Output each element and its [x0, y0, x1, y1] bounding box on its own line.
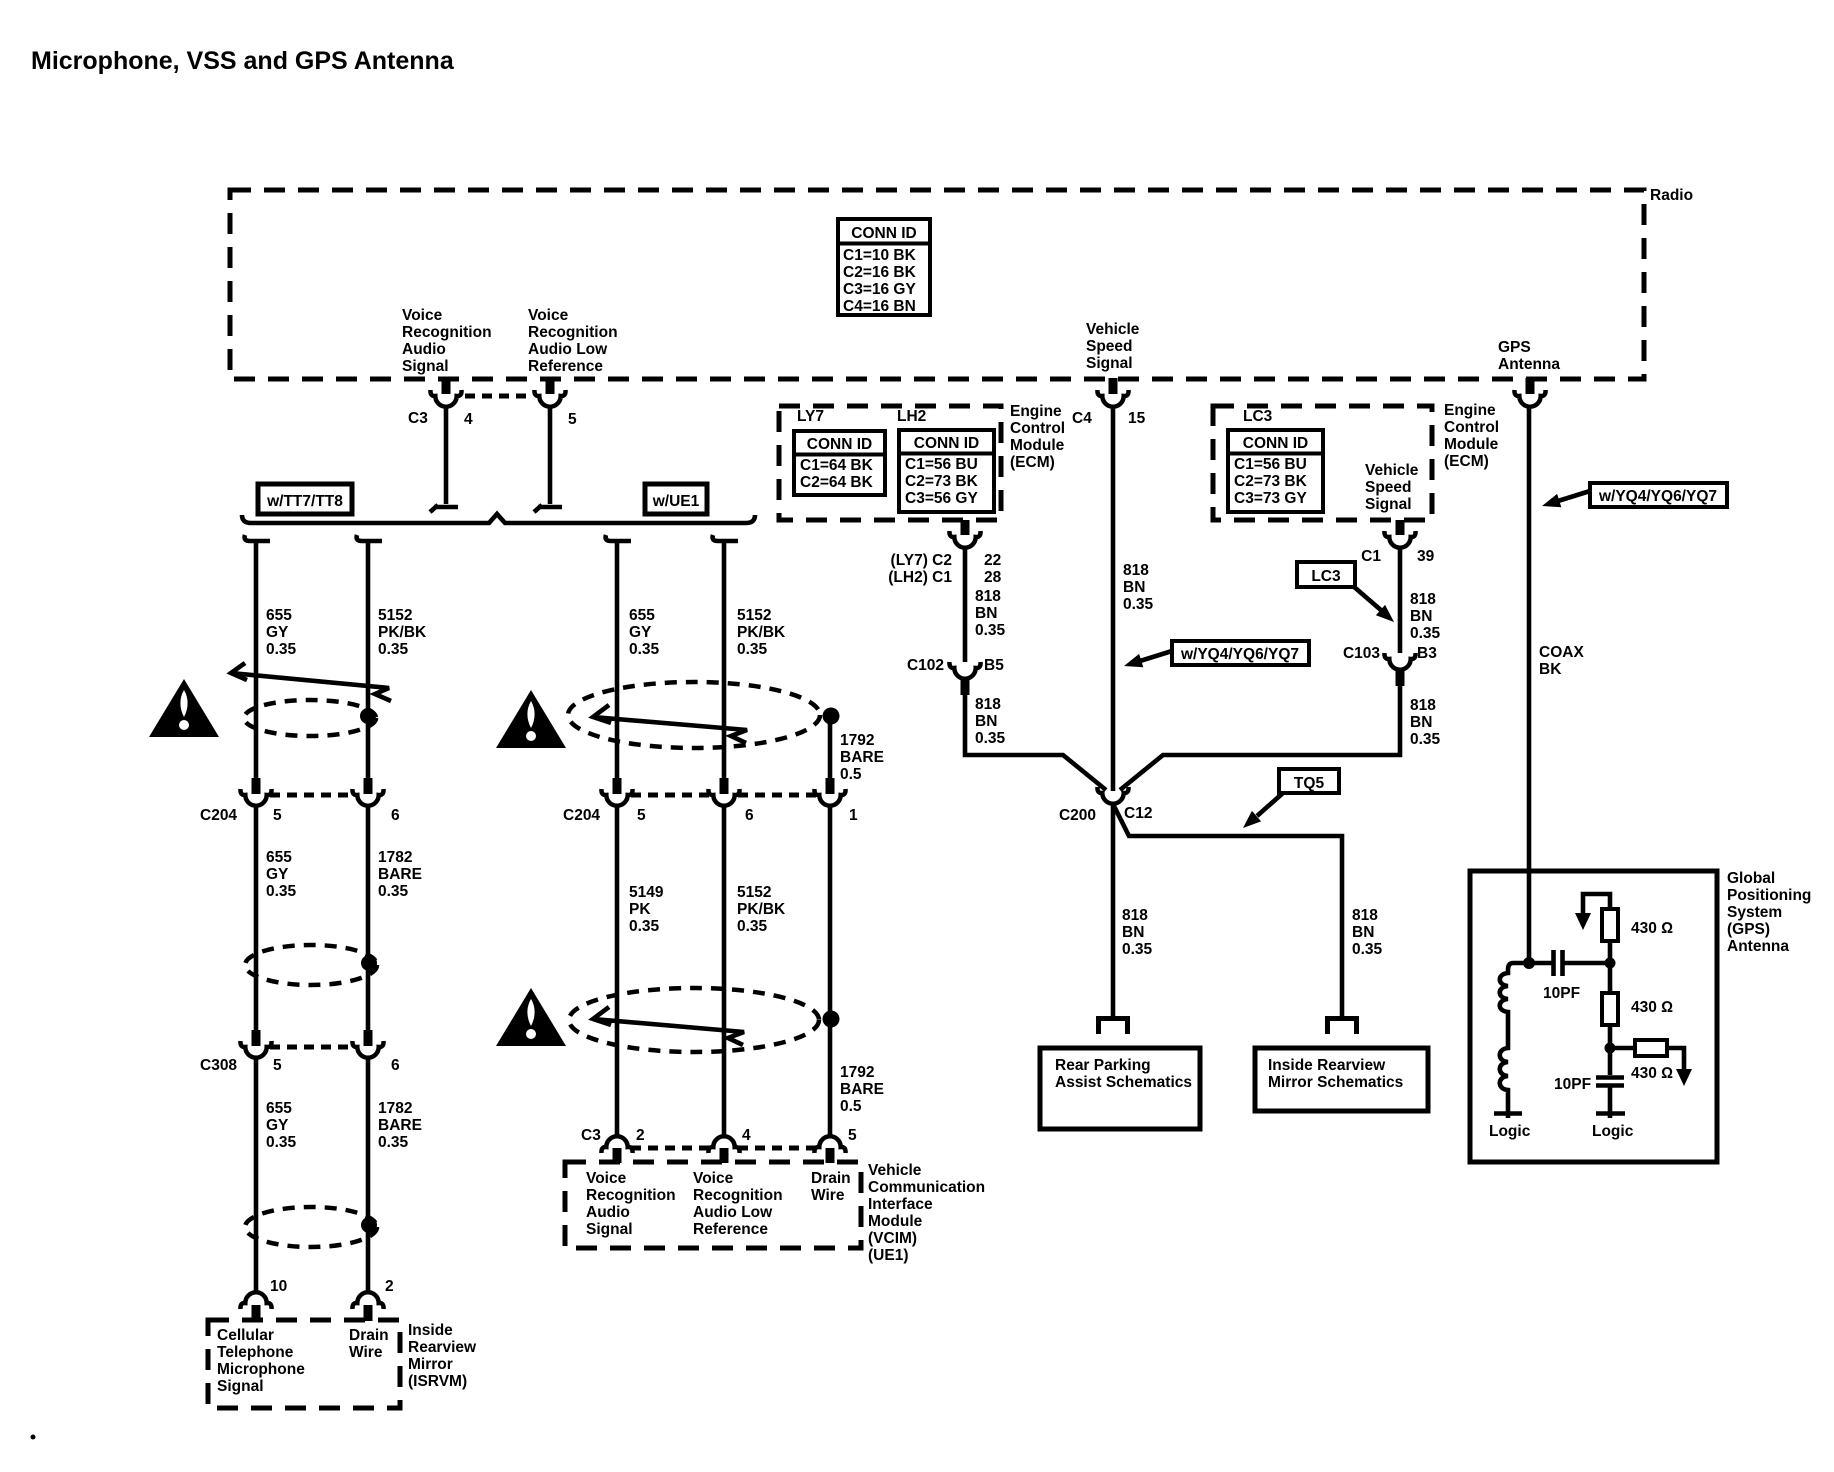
- svg-text:(ISRVM): (ISRVM): [408, 1373, 467, 1390]
- svg-text:Global: Global: [1727, 870, 1775, 887]
- svg-text:39: 39: [1417, 548, 1435, 565]
- svg-text:5: 5: [848, 1127, 857, 1144]
- svg-text:15: 15: [1128, 410, 1146, 427]
- svg-text:C2=64 BK: C2=64 BK: [800, 474, 874, 491]
- svg-text:BK: BK: [1539, 661, 1562, 678]
- svg-text:Module: Module: [1010, 437, 1065, 454]
- svg-text:Microphone: Microphone: [217, 1361, 305, 1378]
- svg-text:Mirror Schematics: Mirror Schematics: [1268, 1074, 1403, 1091]
- svg-text:C2=16 BK: C2=16 BK: [843, 264, 917, 281]
- svg-text:0.35: 0.35: [737, 918, 768, 935]
- svg-text:(ECM): (ECM): [1444, 453, 1489, 470]
- svg-text:Radio: Radio: [1650, 187, 1693, 204]
- svg-text:C4: C4: [1072, 410, 1092, 427]
- svg-text:Recognition: Recognition: [586, 1187, 676, 1204]
- svg-text:Voice: Voice: [586, 1170, 627, 1187]
- svg-text:(LH2) C1: (LH2) C1: [888, 569, 952, 586]
- svg-text:0.35: 0.35: [378, 1134, 409, 1151]
- svg-text:C1=10 BK: C1=10 BK: [843, 247, 917, 264]
- svg-text:10: 10: [270, 1278, 287, 1295]
- svg-text:818: 818: [1122, 907, 1148, 924]
- svg-text:0.35: 0.35: [737, 641, 768, 658]
- svg-text:655: 655: [266, 1100, 292, 1117]
- svg-text:655: 655: [266, 607, 292, 624]
- svg-text:CONN ID: CONN ID: [851, 225, 916, 242]
- svg-text:10PF: 10PF: [1554, 1076, 1591, 1093]
- svg-text:6: 6: [391, 807, 400, 824]
- svg-text:Voice: Voice: [528, 307, 569, 324]
- svg-text:0.35: 0.35: [1352, 941, 1383, 958]
- svg-text:Antenna: Antenna: [1727, 938, 1789, 955]
- svg-text:Rearview: Rearview: [408, 1339, 477, 1356]
- svg-text:C3=73 GY: C3=73 GY: [1234, 490, 1307, 507]
- svg-text:Engine: Engine: [1444, 402, 1496, 419]
- svg-text:0.35: 0.35: [266, 1134, 297, 1151]
- svg-text:GY: GY: [629, 624, 652, 641]
- svg-text:C1=56 BU: C1=56 BU: [905, 456, 978, 473]
- svg-text:818: 818: [1410, 697, 1436, 714]
- svg-text:C102: C102: [907, 657, 944, 674]
- svg-text:Reference: Reference: [528, 358, 603, 375]
- svg-text:C1=64 BK: C1=64 BK: [800, 457, 874, 474]
- svg-text:0.35: 0.35: [1123, 596, 1154, 613]
- svg-text:0.5: 0.5: [840, 1098, 862, 1115]
- svg-text:Engine: Engine: [1010, 403, 1062, 420]
- svg-text:COAX: COAX: [1539, 644, 1584, 661]
- svg-text:1: 1: [849, 807, 858, 824]
- svg-text:Module: Module: [1444, 436, 1499, 453]
- svg-text:Wire: Wire: [811, 1187, 845, 1204]
- svg-text:w/UE1: w/UE1: [652, 493, 700, 510]
- svg-text:5: 5: [637, 807, 646, 824]
- svg-text:Inside Rearview: Inside Rearview: [1268, 1057, 1386, 1074]
- svg-text:C2=73 BK: C2=73 BK: [1234, 473, 1308, 490]
- svg-text:5149: 5149: [629, 884, 664, 901]
- svg-text:5152: 5152: [737, 607, 771, 624]
- svg-text:818: 818: [1410, 591, 1436, 608]
- svg-text:Recognition: Recognition: [402, 324, 492, 341]
- svg-text:0.35: 0.35: [975, 622, 1006, 639]
- svg-text:C3: C3: [581, 1127, 601, 1144]
- svg-text:BN: BN: [1352, 924, 1374, 941]
- svg-text:PK: PK: [629, 901, 651, 918]
- svg-text:BARE: BARE: [840, 749, 884, 766]
- svg-text:430 Ω: 430 Ω: [1631, 999, 1673, 1016]
- svg-text:430 Ω: 430 Ω: [1631, 1065, 1673, 1082]
- svg-text:C204: C204: [563, 807, 600, 824]
- svg-text:Vehicle: Vehicle: [1365, 462, 1419, 479]
- svg-text:4: 4: [742, 1127, 751, 1144]
- svg-text:6: 6: [391, 1057, 400, 1074]
- svg-text:(GPS): (GPS): [1727, 921, 1770, 938]
- svg-text:C200: C200: [1059, 807, 1096, 824]
- svg-text:Assist Schematics: Assist Schematics: [1055, 1074, 1192, 1091]
- svg-text:BN: BN: [1123, 579, 1145, 596]
- svg-text:BARE: BARE: [840, 1081, 884, 1098]
- svg-text:GPS: GPS: [1498, 339, 1531, 356]
- svg-text:Signal: Signal: [217, 1378, 264, 1395]
- svg-text:C4=16 BN: C4=16 BN: [843, 298, 916, 315]
- svg-text:PK/BK: PK/BK: [737, 901, 786, 918]
- svg-text:(LY7) C2: (LY7) C2: [891, 552, 952, 569]
- svg-text:0.35: 0.35: [1410, 625, 1441, 642]
- svg-text:BN: BN: [1122, 924, 1144, 941]
- svg-text:C204: C204: [200, 807, 237, 824]
- svg-text:0.5: 0.5: [840, 766, 862, 783]
- svg-text:Control: Control: [1010, 420, 1065, 437]
- svg-text:Audio Low: Audio Low: [528, 341, 608, 358]
- svg-text:Interface: Interface: [868, 1196, 933, 1213]
- svg-text:Rear Parking: Rear Parking: [1055, 1057, 1151, 1074]
- svg-text:4: 4: [464, 411, 473, 428]
- svg-text:CONN ID: CONN ID: [914, 435, 979, 452]
- svg-text:Speed: Speed: [1086, 338, 1133, 355]
- svg-text:C12: C12: [1124, 805, 1152, 822]
- svg-text:28: 28: [984, 569, 1002, 586]
- svg-text:B5: B5: [984, 657, 1004, 674]
- svg-text:0.35: 0.35: [1122, 941, 1153, 958]
- svg-text:0.35: 0.35: [266, 641, 297, 658]
- svg-text:Signal: Signal: [1086, 355, 1133, 372]
- svg-text:PK/BK: PK/BK: [378, 624, 427, 641]
- svg-text:Signal: Signal: [402, 358, 449, 375]
- svg-text:LC3: LC3: [1311, 568, 1341, 585]
- svg-text:Audio Low: Audio Low: [693, 1204, 773, 1221]
- svg-text:LH2: LH2: [897, 408, 926, 425]
- svg-text:655: 655: [629, 607, 655, 624]
- svg-text:1782: 1782: [378, 1100, 412, 1117]
- svg-text:B3: B3: [1417, 645, 1437, 662]
- svg-text:BARE: BARE: [378, 1117, 422, 1134]
- svg-text:C103: C103: [1343, 645, 1380, 662]
- svg-text:w/YQ4/YQ6/YQ7: w/YQ4/YQ6/YQ7: [1598, 488, 1717, 505]
- svg-text:5152: 5152: [737, 884, 771, 901]
- svg-text:C3=56 GY: C3=56 GY: [905, 490, 978, 507]
- svg-text:0.35: 0.35: [378, 641, 409, 658]
- svg-text:PK/BK: PK/BK: [737, 624, 786, 641]
- svg-text:Antenna: Antenna: [1498, 356, 1560, 373]
- svg-text:Drain: Drain: [349, 1327, 389, 1344]
- svg-text:Wire: Wire: [349, 1344, 383, 1361]
- svg-text:818: 818: [1352, 907, 1378, 924]
- svg-text:C1: C1: [1361, 548, 1381, 565]
- svg-text:Cellular: Cellular: [217, 1327, 274, 1344]
- svg-text:5152: 5152: [378, 607, 412, 624]
- svg-text:Signal: Signal: [1365, 496, 1412, 513]
- svg-text:Drain: Drain: [811, 1170, 851, 1187]
- svg-text:Recognition: Recognition: [693, 1187, 783, 1204]
- svg-text:(VCIM): (VCIM): [868, 1230, 917, 1247]
- svg-text:Recognition: Recognition: [528, 324, 618, 341]
- svg-text:0.35: 0.35: [629, 918, 660, 935]
- svg-text:LY7: LY7: [797, 408, 824, 425]
- svg-text:1792: 1792: [840, 732, 874, 749]
- svg-text:Logic: Logic: [1489, 1123, 1531, 1140]
- svg-text:0.35: 0.35: [975, 730, 1006, 747]
- svg-text:(UE1): (UE1): [868, 1247, 908, 1264]
- svg-text:10PF: 10PF: [1543, 985, 1580, 1002]
- svg-text:Signal: Signal: [586, 1221, 633, 1238]
- svg-text:Communication: Communication: [868, 1179, 985, 1196]
- svg-text:Control: Control: [1444, 419, 1499, 436]
- svg-text:0.35: 0.35: [266, 883, 297, 900]
- svg-text:w/YQ4/YQ6/YQ7: w/YQ4/YQ6/YQ7: [1180, 646, 1299, 663]
- svg-text:TQ5: TQ5: [1294, 775, 1325, 792]
- svg-text:w/TT7/TT8: w/TT7/TT8: [266, 493, 343, 510]
- svg-text:BN: BN: [1410, 608, 1432, 625]
- svg-text:430 Ω: 430 Ω: [1631, 920, 1673, 937]
- svg-text:C1=56 BU: C1=56 BU: [1234, 456, 1307, 473]
- svg-text:Inside: Inside: [408, 1322, 453, 1339]
- svg-text:GY: GY: [266, 866, 289, 883]
- svg-text:Audio: Audio: [586, 1204, 630, 1221]
- svg-text:Audio: Audio: [402, 341, 446, 358]
- svg-text:Speed: Speed: [1365, 479, 1412, 496]
- svg-text:C3=16 GY: C3=16 GY: [843, 281, 916, 298]
- svg-text:818: 818: [975, 696, 1001, 713]
- svg-text:BARE: BARE: [378, 866, 422, 883]
- svg-text:Positioning: Positioning: [1727, 887, 1811, 904]
- svg-text:C308: C308: [200, 1057, 237, 1074]
- svg-text:Mirror: Mirror: [408, 1356, 453, 1373]
- svg-text:2: 2: [636, 1127, 645, 1144]
- svg-text:(ECM): (ECM): [1010, 454, 1055, 471]
- svg-text:CONN ID: CONN ID: [1243, 435, 1308, 452]
- svg-text:818: 818: [975, 588, 1001, 605]
- svg-text:5: 5: [273, 807, 282, 824]
- svg-text:Microphone, VSS and GPS Antenn: Microphone, VSS and GPS Antenna: [31, 47, 455, 75]
- svg-text:655: 655: [266, 849, 292, 866]
- svg-text:C2=73 BK: C2=73 BK: [905, 473, 979, 490]
- svg-text:5: 5: [273, 1057, 282, 1074]
- svg-text:0.35: 0.35: [378, 883, 409, 900]
- svg-text:1792: 1792: [840, 1064, 874, 1081]
- svg-text:Vehicle: Vehicle: [868, 1162, 922, 1179]
- svg-text:Module: Module: [868, 1213, 923, 1230]
- svg-text:C3: C3: [408, 410, 428, 427]
- svg-text:5: 5: [568, 411, 577, 428]
- svg-text:BN: BN: [975, 605, 997, 622]
- svg-text:Telephone: Telephone: [217, 1344, 294, 1361]
- svg-text:0.35: 0.35: [629, 641, 660, 658]
- svg-text:System: System: [1727, 904, 1782, 921]
- svg-text:22: 22: [984, 552, 1001, 569]
- svg-text:LC3: LC3: [1243, 408, 1273, 425]
- svg-text:Reference: Reference: [693, 1221, 768, 1238]
- svg-text:818: 818: [1123, 562, 1149, 579]
- svg-text:GY: GY: [266, 624, 289, 641]
- svg-text:Logic: Logic: [1592, 1123, 1634, 1140]
- svg-text:6: 6: [745, 807, 754, 824]
- svg-text:BN: BN: [1410, 714, 1432, 731]
- svg-text:Voice: Voice: [693, 1170, 734, 1187]
- svg-text:2: 2: [385, 1278, 394, 1295]
- svg-text:CONN ID: CONN ID: [807, 436, 872, 453]
- svg-text:Vehicle: Vehicle: [1086, 321, 1140, 338]
- svg-text:Voice: Voice: [402, 307, 443, 324]
- svg-text:0.35: 0.35: [1410, 731, 1441, 748]
- svg-text:BN: BN: [975, 713, 997, 730]
- svg-text:1782: 1782: [378, 849, 412, 866]
- svg-text:GY: GY: [266, 1117, 289, 1134]
